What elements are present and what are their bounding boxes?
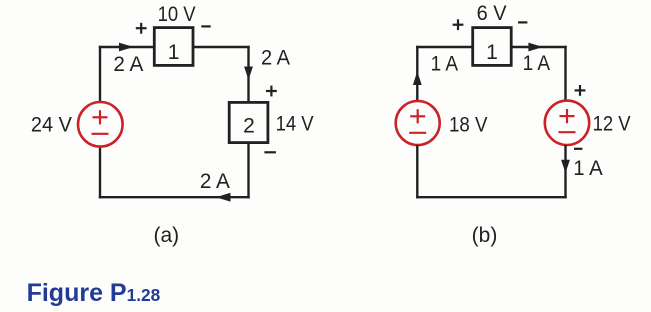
wire: (b) top-right horizontal from element 1 to right corner [511,46,567,48]
svg-text:6 V: 6 V [477,2,507,25]
wire: (a) top-right horizontal from element 1 to right corner [193,46,250,48]
wire: (a) left vertical lower (source to bottom corner) [99,146,101,198]
source + mark [410,109,425,123]
svg-text:1 A: 1 A [523,52,551,75]
polarity - (b, below right source) [574,148,582,150]
source - mark [92,133,109,135]
svg-text:(a): (a) [153,224,179,247]
wire: (a) right vertical from corner down to element 2 [247,46,249,103]
polarity + (b, left of element 1) [453,19,464,30]
element box 1 (b) [473,28,512,66]
polarity + (a, left of element 1) [136,23,147,34]
source + mark [93,110,108,124]
svg-text:10 V: 10 V [158,3,196,26]
voltage source 18 V (b) [396,101,440,145]
wire: (b) right vertical lower (source down to bottom corner) [564,145,566,198]
svg-text:(b): (b) [472,224,498,247]
svg-text:1: 1 [486,41,498,64]
polarity - (a, right of element 1) [201,25,210,27]
source + mark [560,109,575,123]
svg-text:18 V: 18 V [449,114,488,137]
svg-text:1 A: 1 A [431,53,459,76]
svg-text:12 V: 12 V [593,113,631,136]
wire: (b) top-left horizontal from left node to element 1 [416,46,473,48]
element box 2 (a) [229,102,268,142]
polarity + (b, above right source) [575,85,586,96]
svg-text:2 A: 2 A [200,170,230,193]
svg-text:2: 2 [243,115,255,138]
wire: (b) left vertical lower (source down to bottom corner) [416,145,418,198]
polarity - (b, right of element 1) [518,21,527,23]
current arrow 1 A out of element 1 (pointing right) [528,43,543,52]
source - mark [409,132,426,134]
wire: (a) top-left horizontal from left node to element 1 [99,46,155,48]
voltage source 24 V (a) [78,102,123,147]
polarity + (a, above element 2) [266,86,277,97]
svg-text:14 V: 14 V [276,113,314,136]
svg-text:2 A: 2 A [113,53,143,76]
wire: (a) left vertical upper (source to top corner) [99,46,101,102]
current arrow 1 A up left branch (pointing up) [413,71,422,85]
svg-text:1: 1 [168,41,180,64]
wire: (a) bottom horizontal [99,196,250,198]
wire: (b) left vertical (top corner down to source) [416,46,418,101]
svg-text:2 A: 2 A [261,47,290,70]
svg-text:Figure P1.28: Figure P1.28 [27,279,161,307]
svg-text:1 A: 1 A [573,157,603,180]
wire: (b) right vertical upper (corner down to source) [564,46,566,101]
current arrow 2 A into element 1 (pointing right) [119,43,134,52]
voltage source 12 V (b) [545,101,589,145]
current arrow 2 A down right branch (pointing down) [244,67,253,81]
element box 1 (a) [154,28,193,66]
svg-text:24 V: 24 V [31,114,72,137]
wire: (b) bottom horizontal [416,196,567,198]
wire: (a) right vertical from element 2 down to bottom corner [247,143,249,199]
current arrow 1 A down right branch (pointing down) [561,160,570,173]
source - mark [559,131,576,133]
current arrow 2 A return (pointing left) [216,193,231,202]
polarity - (a, below element 2) [264,151,276,153]
